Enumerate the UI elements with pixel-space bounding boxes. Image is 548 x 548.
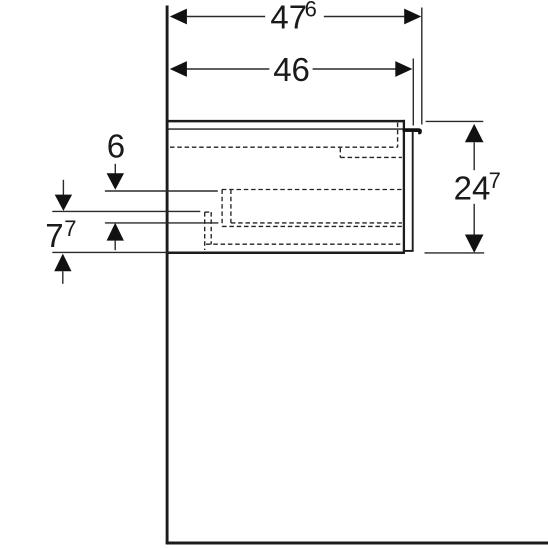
- svg-text:7: 7: [45, 217, 63, 254]
- lower drawer dashed: front outer: [204, 212, 206, 250]
- lower drawer dashed: top piece: [205, 211, 212, 213]
- reference line 4 (cabinet bottom ext): [52, 251, 167, 253]
- svg-text:6: 6: [305, 0, 317, 22]
- lower drawer dashed: bottom: [206, 243, 402, 245]
- lower drawer dashed: front inner: [210, 212, 212, 244]
- ext line 24.7 bottom: [425, 252, 485, 254]
- dim 46 right arrow: [395, 61, 412, 77]
- wall: [166, 6, 169, 545]
- svg-text:24: 24: [454, 170, 491, 207]
- inner drawer dashed: front outer: [221, 190, 223, 227]
- floor: [166, 542, 548, 545]
- svg-text:47: 47: [270, 0, 307, 35]
- dim 46 line: [187, 68, 270, 70]
- door front face: [412, 131, 414, 251]
- dim 46 left arrow: [170, 61, 187, 77]
- reference line 2 (lower drawer top): [52, 210, 200, 212]
- svg-text:46: 46: [273, 51, 310, 88]
- door bottom: [404, 250, 414, 252]
- ext line 24.7 top: [426, 120, 484, 122]
- ext line 47.6 right: [421, 8, 423, 125]
- reference line 1 (top of recess lip): [105, 190, 218, 192]
- dim 47.6 left arrow: [170, 9, 187, 25]
- cabinet top edge: [167, 120, 405, 123]
- svg-text:6: 6: [107, 128, 125, 165]
- dim 47.6 right arrow: [404, 9, 421, 25]
- svg-text:7: 7: [489, 168, 501, 193]
- svg-text:7: 7: [64, 216, 76, 241]
- cabinet inner top line: [168, 128, 403, 130]
- hidden dashed: long top line: [170, 146, 398, 148]
- handle profile: [403, 128, 422, 134]
- dim 24.7 down arrow: [473, 204, 475, 237]
- hidden dashed: recess step vertical: [339, 148, 341, 158]
- dim 7.7 up arrow: [54, 254, 71, 272]
- cabinet bottom edge: [167, 251, 405, 254]
- dim 47.6 line: [187, 16, 266, 18]
- dim 6 up arrow: [107, 223, 124, 241]
- hidden dashed: recess lower line: [340, 156, 402, 158]
- dim 24.7 up arrow: [465, 124, 484, 142]
- dim 6 down arrow: [114, 164, 116, 175]
- inner drawer dashed: bottom outer: [222, 225, 402, 227]
- dim 7.7 down arrow: [62, 180, 64, 196]
- reference line 3 (inner drawer bottom): [105, 222, 218, 224]
- inner drawer dashed: front inner: [230, 190, 232, 223]
- hidden dashed: vertical right of recess: [397, 123, 399, 148]
- ext line 46 right: [412, 59, 414, 126]
- inner drawer dashed: top: [222, 189, 402, 191]
- inner drawer dashed: bottom inner: [231, 222, 402, 224]
- cabinet right face: [403, 120, 405, 254]
